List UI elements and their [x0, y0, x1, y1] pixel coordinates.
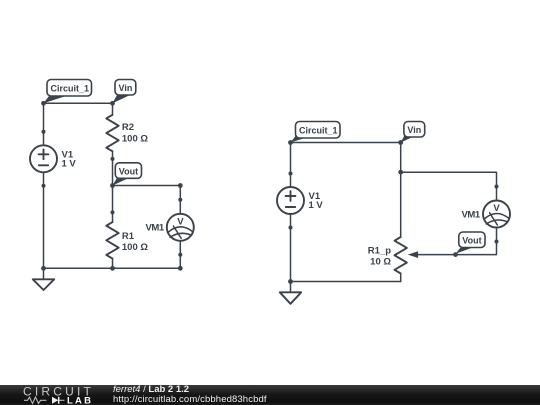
ground (right circuit) — [280, 282, 301, 304]
svg-text:Vout: Vout — [119, 166, 138, 176]
svg-text:LAB: LAB — [67, 395, 93, 405]
svg-text:Vout: Vout — [462, 236, 481, 246]
svg-text:1 V: 1 V — [309, 200, 324, 211]
wire Vin junction down to pot — [400, 172, 402, 237]
svg-text:R2: R2 — [122, 122, 134, 133]
wire tap junction to VM1 (right) — [401, 172, 497, 186]
svg-text:R1_p: R1_p — [368, 246, 391, 257]
wire VM1 bottom to rail — [179, 255, 181, 268]
potentiometer R1_p — [368, 237, 418, 273]
svg-text:Circuit_1: Circuit_1 — [299, 126, 338, 136]
wire V1 bottom to rail (right) — [290, 228, 292, 282]
svg-text:Vin: Vin — [407, 125, 421, 135]
svg-text:100 Ω: 100 Ω — [122, 242, 148, 253]
footer title text — [113, 384, 189, 395]
voltmeter VM1 (left) — [146, 198, 194, 257]
svg-text:100 Ω: 100 Ω — [122, 133, 148, 144]
node Circuit_1 (right) — [288, 122, 340, 145]
resistor R2 — [106, 103, 148, 161]
footer bar — [0, 385, 540, 405]
svg-text:R1: R1 — [122, 231, 135, 242]
wire Vout node to VM1 branch — [113, 183, 183, 200]
ground rail wire (left circuit) — [41, 266, 183, 271]
node Vout (left) — [110, 163, 141, 188]
voltage source V1 (right) — [277, 172, 323, 230]
node Vout (right) — [453, 232, 485, 257]
wire top left circuit — [44, 102, 113, 104]
resistor R1 — [106, 210, 148, 268]
ground (left circuit) — [33, 268, 54, 290]
svg-text:1 V: 1 V — [62, 159, 77, 170]
voltage source V1 (left) — [30, 130, 76, 188]
svg-text:Circuit_1: Circuit_1 — [51, 84, 90, 94]
svg-text:V: V — [493, 203, 500, 214]
footer url text — [113, 394, 267, 405]
ground rail wire (right circuit) — [288, 279, 401, 284]
wire Vout node down to R1 — [112, 186, 114, 213]
wire pot bottom to rail — [400, 274, 402, 282]
wire R2 to Vout node — [112, 159, 114, 186]
node Vin (left) — [110, 80, 136, 106]
voltmeter VM1 (right) — [462, 185, 511, 244]
wire V1 top (right) — [290, 143, 292, 174]
wire Vin down to tap junction — [398, 143, 403, 175]
svg-text:10 Ω: 10 Ω — [370, 257, 391, 268]
svg-text:VM1: VM1 — [462, 209, 481, 220]
svg-text:Vin: Vin — [119, 83, 133, 93]
wire V1 top — [43, 103, 45, 132]
wire V1 bottom to rail — [43, 186, 45, 268]
node Circuit_1 (left) — [41, 80, 91, 106]
wire top right circuit — [291, 142, 401, 144]
wire VM1 bottom to wiper (right) — [418, 242, 496, 255]
svg-text:V: V — [177, 217, 184, 228]
CircuitLab logo — [0, 384, 100, 405]
node Vin (right) — [398, 122, 424, 145]
svg-text:VM1: VM1 — [146, 223, 165, 234]
